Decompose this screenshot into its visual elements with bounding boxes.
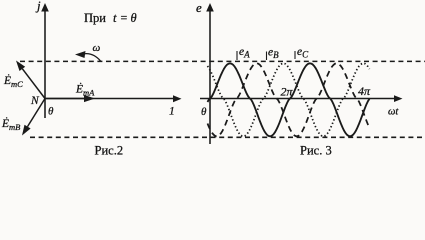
svg-text:θ: θ <box>48 106 54 118</box>
svg-text:eB: eB <box>268 47 279 61</box>
svg-text:При: При <box>84 11 106 25</box>
omega rotation arrow (arc) <box>83 54 101 62</box>
svg-text:4π: 4π <box>358 84 371 98</box>
svg-text:θ: θ <box>201 106 207 118</box>
svg-text:1: 1 <box>169 106 175 118</box>
svg-text:ĖmB: ĖmB <box>1 116 20 132</box>
svg-text:eA: eA <box>239 46 250 60</box>
curve eA (solid sine) <box>208 63 370 136</box>
svg-text:j: j <box>35 0 41 13</box>
svg-text:Рис.2: Рис.2 <box>95 144 124 158</box>
svg-text:Рис. 3: Рис. 3 <box>300 144 332 158</box>
svg-text:e: e <box>196 0 202 15</box>
curve eB (dashed sine) <box>208 63 370 136</box>
axis 1 (real axis, Рис.2) <box>45 98 175 100</box>
phasor EmB (down-left) <box>28 99 46 127</box>
phasor EmC (up-left) <box>22 69 45 99</box>
axis e (EMF axis, Рис.3) <box>209 9 211 144</box>
svg-text:ĖmA: ĖmA <box>75 82 95 98</box>
dashed amplitude line +Em (top) <box>20 60 425 62</box>
leader tick eA <box>236 51 238 60</box>
dashed amplitude line -Em (bottom) <box>30 136 425 138</box>
svg-text:θ: θ <box>131 11 137 25</box>
svg-text:=: = <box>121 11 128 25</box>
leader tick eC <box>294 51 296 59</box>
svg-text:N: N <box>30 95 40 107</box>
curve eC (dotted sine) <box>208 63 370 136</box>
svg-text:ωt: ωt <box>388 107 399 118</box>
leader tick eB <box>266 52 268 61</box>
svg-text:ĖmC: ĖmC <box>3 73 23 89</box>
svg-text:eC: eC <box>297 46 309 60</box>
phasor EmA (vector along real axis) <box>45 98 86 100</box>
axis wt (time axis, Рис.3) <box>200 98 396 100</box>
axis j (imaginary axis, Рис.2) <box>44 9 46 118</box>
svg-text:t: t <box>113 11 117 25</box>
svg-text:ω: ω <box>93 42 101 54</box>
